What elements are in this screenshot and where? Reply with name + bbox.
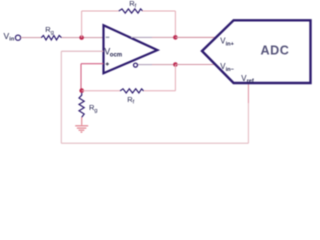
- input terminal (open circle): [15, 35, 20, 40]
- resistor Rf (top feedback): [119, 9, 143, 13]
- label Rf (top): [129, 0, 136, 10]
- wire + input down to bottom junction: [80, 64, 82, 91]
- wire op-amp inverting output to node: [138, 64, 152, 66]
- svg-text:ocm: ocm: [110, 52, 122, 58]
- wire op-amp noninverting output to node: [131, 36, 152, 38]
- svg-text:ADC: ADC: [261, 44, 290, 58]
- node A (junction, input to top feedback): [79, 35, 84, 40]
- label Rg (vertical resistor): [89, 103, 98, 114]
- wire node B to ADC Vin+: [175, 36, 216, 38]
- wire node C to ADC Vin-: [175, 64, 215, 66]
- wire op-amp + input to left: [81, 63, 104, 65]
- pin marker minus: [106, 36, 110, 38]
- ground: [75, 117, 88, 132]
- pin label Vref: [241, 74, 254, 85]
- wire bottom rail left segment: [82, 90, 120, 92]
- resistor Rg (horizontal, input): [41, 36, 61, 40]
- wire node C down to bottom feedback rail: [174, 65, 176, 91]
- label Rg: [45, 25, 54, 36]
- wire top rail left segment: [82, 10, 119, 12]
- wire Vocm pin to left: [61, 50, 103, 52]
- pin marker plus: [106, 62, 109, 65]
- node D (bottom junction): [79, 88, 84, 93]
- resistor Rg (vertical, to ground): [79, 93, 84, 117]
- svg-text:ref: ref: [247, 79, 254, 85]
- op-amp U1 (fully differential amplifier): [104, 25, 158, 73]
- wire Vocm loop left vertical: [60, 51, 62, 143]
- svg-text:in: in: [9, 37, 15, 43]
- svg-text:in+: in+: [226, 41, 235, 47]
- wire Rg to op-amp inverting input: [62, 37, 104, 39]
- node B (upper output junction): [173, 35, 178, 40]
- wire junction up to top feedback rail: [81, 11, 83, 38]
- label Vocm: [104, 47, 122, 59]
- wire top feedback down to output node: [174, 11, 176, 37]
- pin label Vin-: [220, 62, 234, 73]
- wire Vocm loop bottom horizontal: [61, 142, 248, 144]
- svg-text:in−: in−: [226, 67, 235, 73]
- resistor Rf (bottom feedback): [120, 89, 144, 93]
- wire Vref down from ADC: [247, 103, 249, 143]
- node C (lower output junction): [173, 62, 178, 67]
- ADC U2 block: [202, 20, 311, 83]
- svg-text:g: g: [94, 108, 97, 114]
- pin label Vin+: [220, 37, 234, 48]
- label Vin: [4, 31, 15, 43]
- inverting output bubble: [134, 63, 138, 67]
- svg-text:g: g: [51, 30, 54, 36]
- wire top rail right segment: [142, 10, 175, 12]
- label Rf (bottom): [127, 95, 134, 106]
- wire bottom rail right segment: [144, 90, 176, 92]
- wire Vin terminal to Rg: [21, 37, 42, 39]
